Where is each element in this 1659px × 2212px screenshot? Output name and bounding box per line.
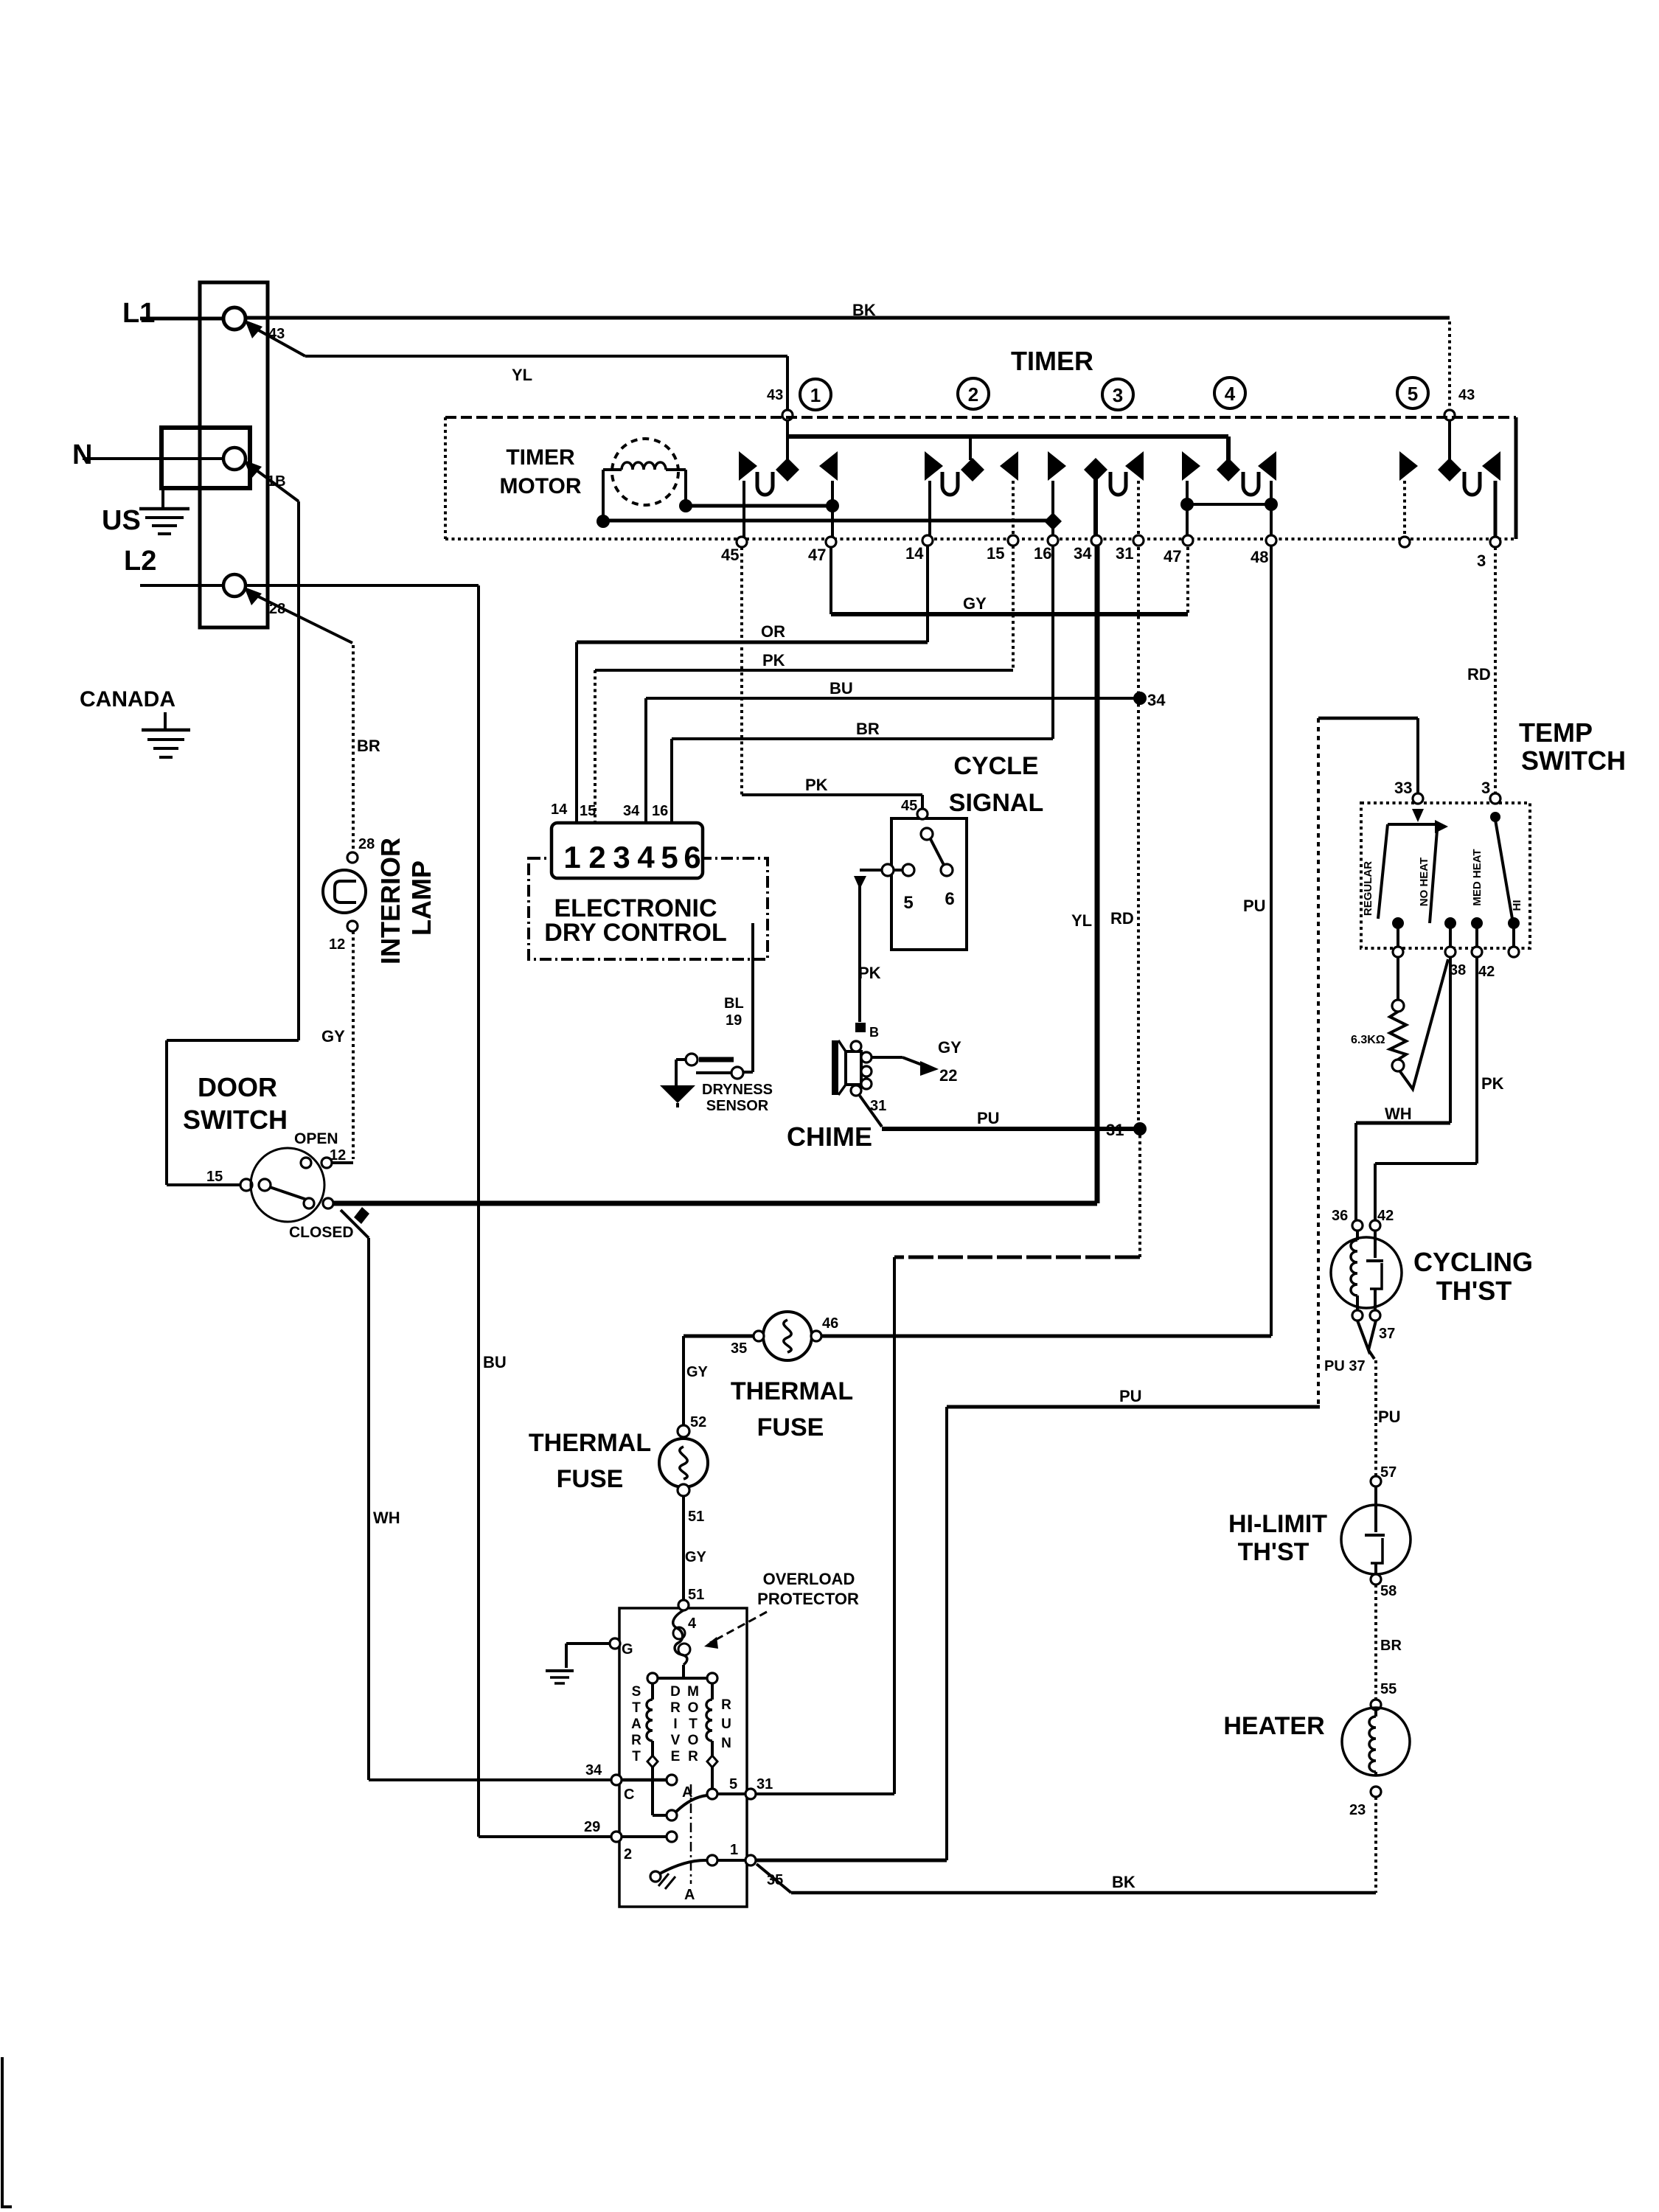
wire GY 47 to 47	[829, 547, 832, 614]
timer terminal 45	[737, 537, 747, 547]
timer switch contact 5	[1438, 458, 1461, 481]
terminal L2	[223, 574, 246, 597]
svg-text:MOTOR: MOTOR	[499, 474, 581, 498]
temp switch contact dots	[1392, 917, 1404, 929]
wire temp 33 up and over	[1416, 718, 1419, 793]
terminal 43b top of timer	[782, 410, 793, 420]
dryness sensor electrode left	[699, 1057, 734, 1062]
svg-text:47: 47	[1164, 547, 1181, 566]
svg-text:BR: BR	[357, 737, 380, 755]
motor axis dash-dot	[690, 1784, 692, 1884]
temp switch arm mid	[1430, 830, 1437, 923]
svg-text:C: C	[624, 1787, 634, 1803]
svg-text:CYCLE: CYCLE	[953, 752, 1038, 780]
svg-text:FUSE: FUSE	[557, 1465, 624, 1493]
terminal L1	[223, 307, 246, 330]
svg-text:14: 14	[905, 544, 924, 563]
terminal block (L1/L2)	[200, 282, 268, 627]
temp terminal 3	[1490, 793, 1500, 804]
resistor 6.3K top terminal	[1392, 1000, 1404, 1012]
svg-text:T: T	[632, 1749, 641, 1764]
cycling bimetal V	[1357, 1321, 1376, 1350]
motor lower contact	[707, 1855, 717, 1865]
svg-text:TH'ST: TH'ST	[1238, 1538, 1310, 1566]
wire BK drop to timer terminal 43	[1448, 321, 1451, 411]
terminal 15 door switch	[240, 1179, 252, 1191]
cycle signal contact left	[882, 864, 894, 876]
svg-text:51: 51	[688, 1509, 704, 1525]
terminal 43 top of timer	[1444, 410, 1455, 420]
svg-text:46: 46	[822, 1315, 838, 1332]
svg-text:5: 5	[729, 1776, 737, 1792]
cycle signal box	[891, 818, 967, 950]
wire motor 1 to BK riser	[756, 1859, 947, 1863]
svg-text:A: A	[682, 1784, 692, 1801]
wire between contact4 junctions	[1187, 503, 1271, 506]
temp switch dot 3	[1490, 812, 1500, 822]
heater terminal bottom	[1371, 1787, 1381, 1797]
svg-text:28: 28	[358, 836, 375, 852]
motor lower pivot	[650, 1871, 661, 1882]
timer terminal 31	[1133, 535, 1144, 546]
temp switch box	[1361, 803, 1530, 948]
svg-text:38: 38	[1450, 962, 1466, 978]
svg-text:THERMAL: THERMAL	[529, 1429, 651, 1457]
thermal fuse left terminal bottom	[678, 1484, 689, 1496]
hi-limit terminal bottom	[1371, 1574, 1381, 1585]
svg-text:CYCLING: CYCLING	[1413, 1247, 1533, 1277]
svg-text:A: A	[684, 1887, 695, 1903]
wire PU row to riser	[947, 1405, 1320, 1409]
svg-text:PK: PK	[1481, 1074, 1504, 1093]
dryness sensor electrode right	[731, 1067, 743, 1079]
contact 1 feed	[786, 420, 789, 460]
timer switch contact 1	[776, 458, 799, 481]
svg-text:37: 37	[1379, 1326, 1395, 1342]
svg-text:33: 33	[1394, 779, 1412, 797]
wire 31 chime to PU	[860, 1096, 882, 1127]
svg-text:WH: WH	[1385, 1105, 1412, 1123]
wire L1 input	[140, 317, 223, 321]
svg-text:REGULAR: REGULAR	[1362, 861, 1374, 916]
run winding diamond	[707, 1756, 717, 1767]
door switch pivot	[259, 1179, 271, 1191]
timer box	[445, 416, 1516, 419]
svg-text:OVERLOAD: OVERLOAD	[763, 1570, 855, 1588]
contact 5 feed	[1448, 420, 1451, 460]
cycling thermostat body	[1331, 1237, 1402, 1308]
svg-text:WH: WH	[373, 1509, 400, 1527]
svg-text:BK: BK	[852, 301, 876, 319]
junction chime PU	[1133, 1122, 1147, 1135]
cycling contact	[1374, 1231, 1377, 1258]
svg-text:LAMP: LAMP	[406, 860, 437, 936]
wire RD 3 to temp switch	[1494, 547, 1497, 793]
svg-text:51: 51	[688, 1587, 704, 1603]
svg-text:BR: BR	[856, 720, 880, 738]
door switch OPEN contacts	[301, 1158, 311, 1168]
junction diamond 16	[1044, 512, 1062, 530]
svg-text:34: 34	[1147, 691, 1166, 709]
svg-text:52: 52	[690, 1414, 706, 1430]
svg-text:L1: L1	[122, 298, 155, 329]
wire PU thermal fuse row	[816, 1335, 1271, 1338]
svg-text:DRYNESS: DRYNESS	[702, 1082, 773, 1098]
terminal N	[223, 448, 246, 470]
start winding	[651, 1683, 654, 1700]
ground dryness sensor	[660, 1085, 695, 1103]
svg-text:PU: PU	[1119, 1387, 1142, 1405]
wire PK temp to cycling	[1475, 957, 1478, 1164]
motor centrifugal arm upper	[676, 1795, 707, 1812]
contact 3 to terminal 34	[1093, 479, 1098, 539]
terminal 28 lamp top	[347, 852, 358, 863]
wire OR 14 to EDC	[926, 546, 929, 642]
svg-text:G: G	[622, 1641, 633, 1658]
wire BR hi-limit to heater	[1374, 1585, 1377, 1700]
wire thick y706	[603, 519, 1053, 523]
svg-text:OR: OR	[761, 622, 785, 641]
wire 31 down	[1137, 547, 1140, 1129]
motor terminal 34	[611, 1775, 622, 1785]
svg-text:5: 5	[661, 840, 678, 874]
heater body	[1342, 1708, 1410, 1775]
cycling coil	[1356, 1231, 1359, 1240]
svg-text:HI: HI	[1511, 900, 1523, 911]
svg-text:YL: YL	[1071, 911, 1092, 930]
wire BK heater to motor	[791, 1891, 1376, 1895]
svg-text:US: US	[102, 505, 141, 536]
svg-text:34: 34	[1074, 544, 1092, 563]
svg-text:BL: BL	[724, 995, 744, 1012]
thermal fuse left	[659, 1439, 708, 1487]
svg-text:12: 12	[329, 936, 345, 953]
timer terminal 47a	[826, 537, 836, 547]
motor box	[619, 1608, 747, 1907]
svg-text:1: 1	[563, 840, 580, 874]
wire 29 row to motor	[479, 1835, 611, 1838]
wire WH door to motor	[341, 1210, 369, 1238]
svg-text:1B: 1B	[267, 473, 286, 490]
run winding lead	[711, 1767, 714, 1789]
junction 4 right	[1265, 498, 1278, 511]
terminal 12 lamp bottom	[347, 921, 358, 931]
motor terminal 29	[611, 1832, 622, 1842]
svg-text:A: A	[631, 1717, 641, 1732]
contact 4 left leg	[1186, 481, 1189, 539]
wire 35 diagonal	[757, 1864, 791, 1893]
svg-text:42: 42	[1377, 1208, 1394, 1224]
svg-text:THERMAL: THERMAL	[731, 1377, 853, 1405]
door switch CLOSED contacts	[304, 1198, 314, 1208]
svg-text:22: 22	[939, 1066, 957, 1085]
contact 5 left leg	[1403, 481, 1406, 540]
junction motor left	[597, 515, 610, 528]
svg-text:T: T	[632, 1700, 641, 1716]
wire BL to sensor	[743, 1071, 753, 1074]
contact 2 left leg to 14	[928, 481, 931, 539]
svg-text:31: 31	[870, 1098, 886, 1114]
svg-text:43: 43	[767, 387, 783, 403]
timer terminal 47b	[1183, 535, 1193, 546]
svg-text:3: 3	[1477, 552, 1486, 570]
wire GY lamp to door switch	[352, 931, 355, 1159]
contact 1 left leg to 45	[742, 481, 745, 539]
resistor 6.3K lead	[1397, 957, 1399, 1000]
svg-text:6: 6	[945, 889, 954, 909]
wire WH temp to cycling	[1449, 957, 1452, 1123]
svg-text:HI-LIMIT: HI-LIMIT	[1228, 1510, 1327, 1538]
junction motor right	[679, 499, 692, 512]
door switch arm	[270, 1187, 309, 1200]
svg-text:23: 23	[1349, 1802, 1366, 1818]
svg-text:R: R	[688, 1749, 698, 1764]
svg-text:PK: PK	[858, 964, 881, 982]
svg-text:CLOSED: CLOSED	[289, 1224, 354, 1241]
svg-text:5: 5	[903, 893, 913, 913]
svg-text:2: 2	[968, 383, 978, 406]
svg-text:SENSOR: SENSOR	[706, 1098, 769, 1114]
circled 1	[800, 379, 831, 410]
svg-text:R: R	[631, 1733, 641, 1748]
svg-text:E: E	[671, 1749, 681, 1764]
chime terminals	[851, 1041, 861, 1051]
wire BR 16 to EDC	[1051, 546, 1054, 739]
timer terminal 34	[1091, 535, 1102, 546]
thermal fuse right	[763, 1312, 812, 1360]
timer terminal 14	[922, 535, 933, 546]
contact 5 right leg to 3	[1494, 481, 1498, 540]
svg-text:N: N	[721, 1736, 731, 1751]
circled 5	[1397, 378, 1428, 408]
svg-text:PK: PK	[762, 651, 785, 669]
hi-limit body	[1341, 1505, 1411, 1574]
svg-text:35: 35	[767, 1872, 783, 1888]
svg-text:36: 36	[1332, 1208, 1348, 1224]
svg-text:L2: L2	[124, 546, 156, 577]
svg-text:34: 34	[585, 1762, 602, 1778]
temp switch contact stubs	[1397, 923, 1399, 947]
svg-text:BK: BK	[1112, 1873, 1135, 1891]
svg-text:M: M	[687, 1684, 699, 1700]
circled 3	[1102, 379, 1133, 410]
svg-text:PU 37: PU 37	[1324, 1358, 1366, 1374]
timer motor dashed circle	[612, 439, 678, 505]
wire 1B diagonal from N	[251, 466, 299, 501]
wire 28 diagonal from L2	[251, 593, 352, 643]
svg-text:31: 31	[1116, 544, 1133, 563]
run winding	[711, 1683, 714, 1700]
svg-text:INTERIOR: INTERIOR	[375, 838, 406, 964]
wire heater down	[1374, 1797, 1377, 1893]
motor terminal G	[610, 1638, 620, 1649]
svg-text:58: 58	[1380, 1583, 1397, 1599]
svg-text:S: S	[632, 1684, 641, 1700]
cycle signal terminal 45	[917, 809, 928, 819]
circled 4	[1214, 378, 1245, 408]
svg-text:NO HEAT: NO HEAT	[1418, 858, 1430, 906]
timer terminal 3	[1490, 537, 1500, 547]
svg-text:CHIME: CHIME	[787, 1121, 872, 1152]
svg-text:DOOR: DOOR	[198, 1072, 277, 1102]
wire thick y686	[686, 504, 832, 508]
overload protector	[673, 1610, 687, 1665]
svg-text:45: 45	[721, 546, 739, 564]
svg-text:42: 42	[1478, 964, 1495, 980]
wire G ground	[566, 1642, 609, 1645]
svg-text:GY: GY	[321, 1027, 345, 1046]
cycle signal arm	[931, 839, 944, 865]
wire to door switch 15	[167, 1039, 299, 1042]
svg-text:SIGNAL: SIGNAL	[949, 789, 1043, 817]
cycle signal pivot	[921, 828, 933, 840]
svg-text:31: 31	[757, 1776, 773, 1792]
svg-text:GY: GY	[685, 1549, 707, 1565]
contact 4 right leg	[1270, 481, 1273, 539]
timer switch contact 3	[1084, 458, 1107, 481]
terminal 52	[678, 1425, 689, 1437]
svg-text:GY: GY	[963, 594, 987, 613]
ground motor G	[546, 1669, 574, 1672]
bus YL inside timer	[787, 434, 1228, 439]
svg-text:GY: GY	[938, 1038, 961, 1057]
contact 2 feed from bus	[969, 437, 972, 460]
interior lamp	[323, 870, 366, 913]
overload lead	[682, 1665, 685, 1678]
contact 2 right leg to 15	[1012, 481, 1015, 539]
temp bottom terminals	[1393, 947, 1403, 957]
svg-text:HEATER: HEATER	[1223, 1712, 1324, 1740]
svg-text:R: R	[721, 1697, 731, 1713]
svg-text:4: 4	[637, 840, 655, 874]
svg-text:3: 3	[613, 840, 630, 874]
svg-text:34: 34	[623, 803, 640, 819]
timer terminal 16	[1048, 535, 1058, 546]
svg-text:B: B	[869, 1025, 879, 1040]
svg-text:19: 19	[726, 1012, 742, 1029]
svg-text:1: 1	[730, 1842, 738, 1858]
svg-text:RD: RD	[1110, 909, 1134, 928]
wire GY chime	[872, 1056, 902, 1059]
svg-text:BU: BU	[829, 679, 853, 698]
svg-text:43: 43	[1458, 387, 1475, 403]
svg-text:48: 48	[1251, 548, 1268, 566]
wire BK L1 to timer	[246, 316, 1450, 320]
svg-text:PU: PU	[1378, 1408, 1401, 1426]
wire BL from EDC	[751, 923, 754, 1072]
svg-text:MED HEAT: MED HEAT	[1471, 849, 1484, 905]
hi-limit terminal top	[1371, 1476, 1381, 1486]
wire PU 48 down	[1270, 546, 1273, 1336]
motor winding bar	[653, 1677, 712, 1680]
resistor 6.3K bottom terminal	[1392, 1060, 1404, 1071]
wire WH to motor 34	[369, 1778, 611, 1781]
timer terminal 15	[1008, 535, 1018, 546]
wire dashed to PU row	[1317, 718, 1320, 1408]
svg-text:D: D	[670, 1684, 681, 1700]
contact 3 right leg to 31	[1137, 481, 1140, 539]
svg-text:TIMER: TIMER	[1011, 346, 1093, 376]
resistor 6.3K	[1390, 1012, 1406, 1060]
svg-text:47: 47	[808, 546, 826, 564]
svg-text:GY: GY	[686, 1364, 709, 1380]
svg-text:SWITCH: SWITCH	[1521, 745, 1626, 776]
timer terminal 48	[1266, 535, 1276, 546]
svg-text:TIMER: TIMER	[506, 445, 575, 470]
svg-text:16: 16	[652, 803, 668, 819]
wire WH from N down	[297, 501, 300, 1040]
svg-text:TEMP: TEMP	[1519, 717, 1593, 748]
heater terminal top	[1371, 1700, 1381, 1710]
cycling terminal 42	[1370, 1220, 1380, 1231]
electronic dry control box	[529, 858, 768, 959]
svg-text:U: U	[721, 1717, 731, 1732]
svg-text:45: 45	[901, 798, 917, 814]
wire BU vertical	[477, 585, 480, 1837]
contact 3 left leg to 16	[1051, 481, 1054, 539]
svg-text:4: 4	[1225, 383, 1236, 405]
svg-text:R: R	[670, 1700, 681, 1716]
timer switch contact 2	[961, 458, 984, 481]
svg-text:5: 5	[1408, 383, 1418, 405]
wire YL 34 to door switch	[1095, 546, 1100, 1203]
svg-text:3: 3	[1113, 384, 1123, 406]
svg-text:PROTECTOR: PROTECTOR	[757, 1590, 859, 1608]
timer switch contact 4	[1217, 458, 1240, 481]
wire YL drop	[786, 356, 789, 411]
overload pointer	[710, 1612, 767, 1643]
wire N input	[83, 457, 223, 460]
EDC terminal strip	[552, 823, 703, 878]
wire L2 to BU drop	[246, 584, 479, 587]
svg-text:55: 55	[1380, 1681, 1397, 1697]
cycling terminal 36	[1352, 1220, 1363, 1231]
temp switch arm right	[1495, 820, 1512, 919]
wire YL to timer contact 1	[305, 355, 787, 358]
wire thick door CLOSED to YL	[334, 1201, 1097, 1206]
wire GY fuse to motor	[682, 1496, 685, 1601]
svg-text:3: 3	[1481, 779, 1490, 797]
svg-text:CANADA: CANADA	[80, 687, 175, 712]
temp terminal 33	[1413, 793, 1423, 804]
contact 4 feed from bus	[1226, 437, 1231, 460]
thermal fuse right terminals	[754, 1331, 764, 1341]
svg-text:O: O	[688, 1733, 699, 1748]
wire BU 34 to EDC	[646, 697, 1140, 700]
wire 31 dotted to motor run	[1138, 1129, 1141, 1257]
svg-text:T: T	[689, 1717, 698, 1732]
terminal block (N)	[161, 428, 250, 488]
timer motor leads	[602, 470, 605, 521]
svg-text:YL: YL	[512, 366, 532, 384]
temp bimetal arm	[1399, 959, 1448, 1089]
svg-text:2: 2	[624, 1846, 632, 1863]
label 14 mark	[354, 1207, 369, 1224]
contact 1 right leg to 47	[831, 481, 834, 539]
circled 2	[958, 378, 989, 409]
svg-text:14: 14	[551, 801, 568, 818]
wire PK 15 to EDC	[1012, 546, 1015, 670]
hi-limit contact	[1374, 1486, 1377, 1532]
start winding lead	[651, 1767, 654, 1815]
door switch body	[251, 1148, 324, 1222]
svg-text:28: 28	[269, 601, 285, 617]
svg-text:43: 43	[268, 326, 285, 342]
svg-text:15: 15	[580, 803, 596, 819]
svg-text:16: 16	[1034, 544, 1051, 563]
svg-text:15: 15	[206, 1169, 223, 1185]
svg-text:PU: PU	[977, 1109, 1000, 1127]
